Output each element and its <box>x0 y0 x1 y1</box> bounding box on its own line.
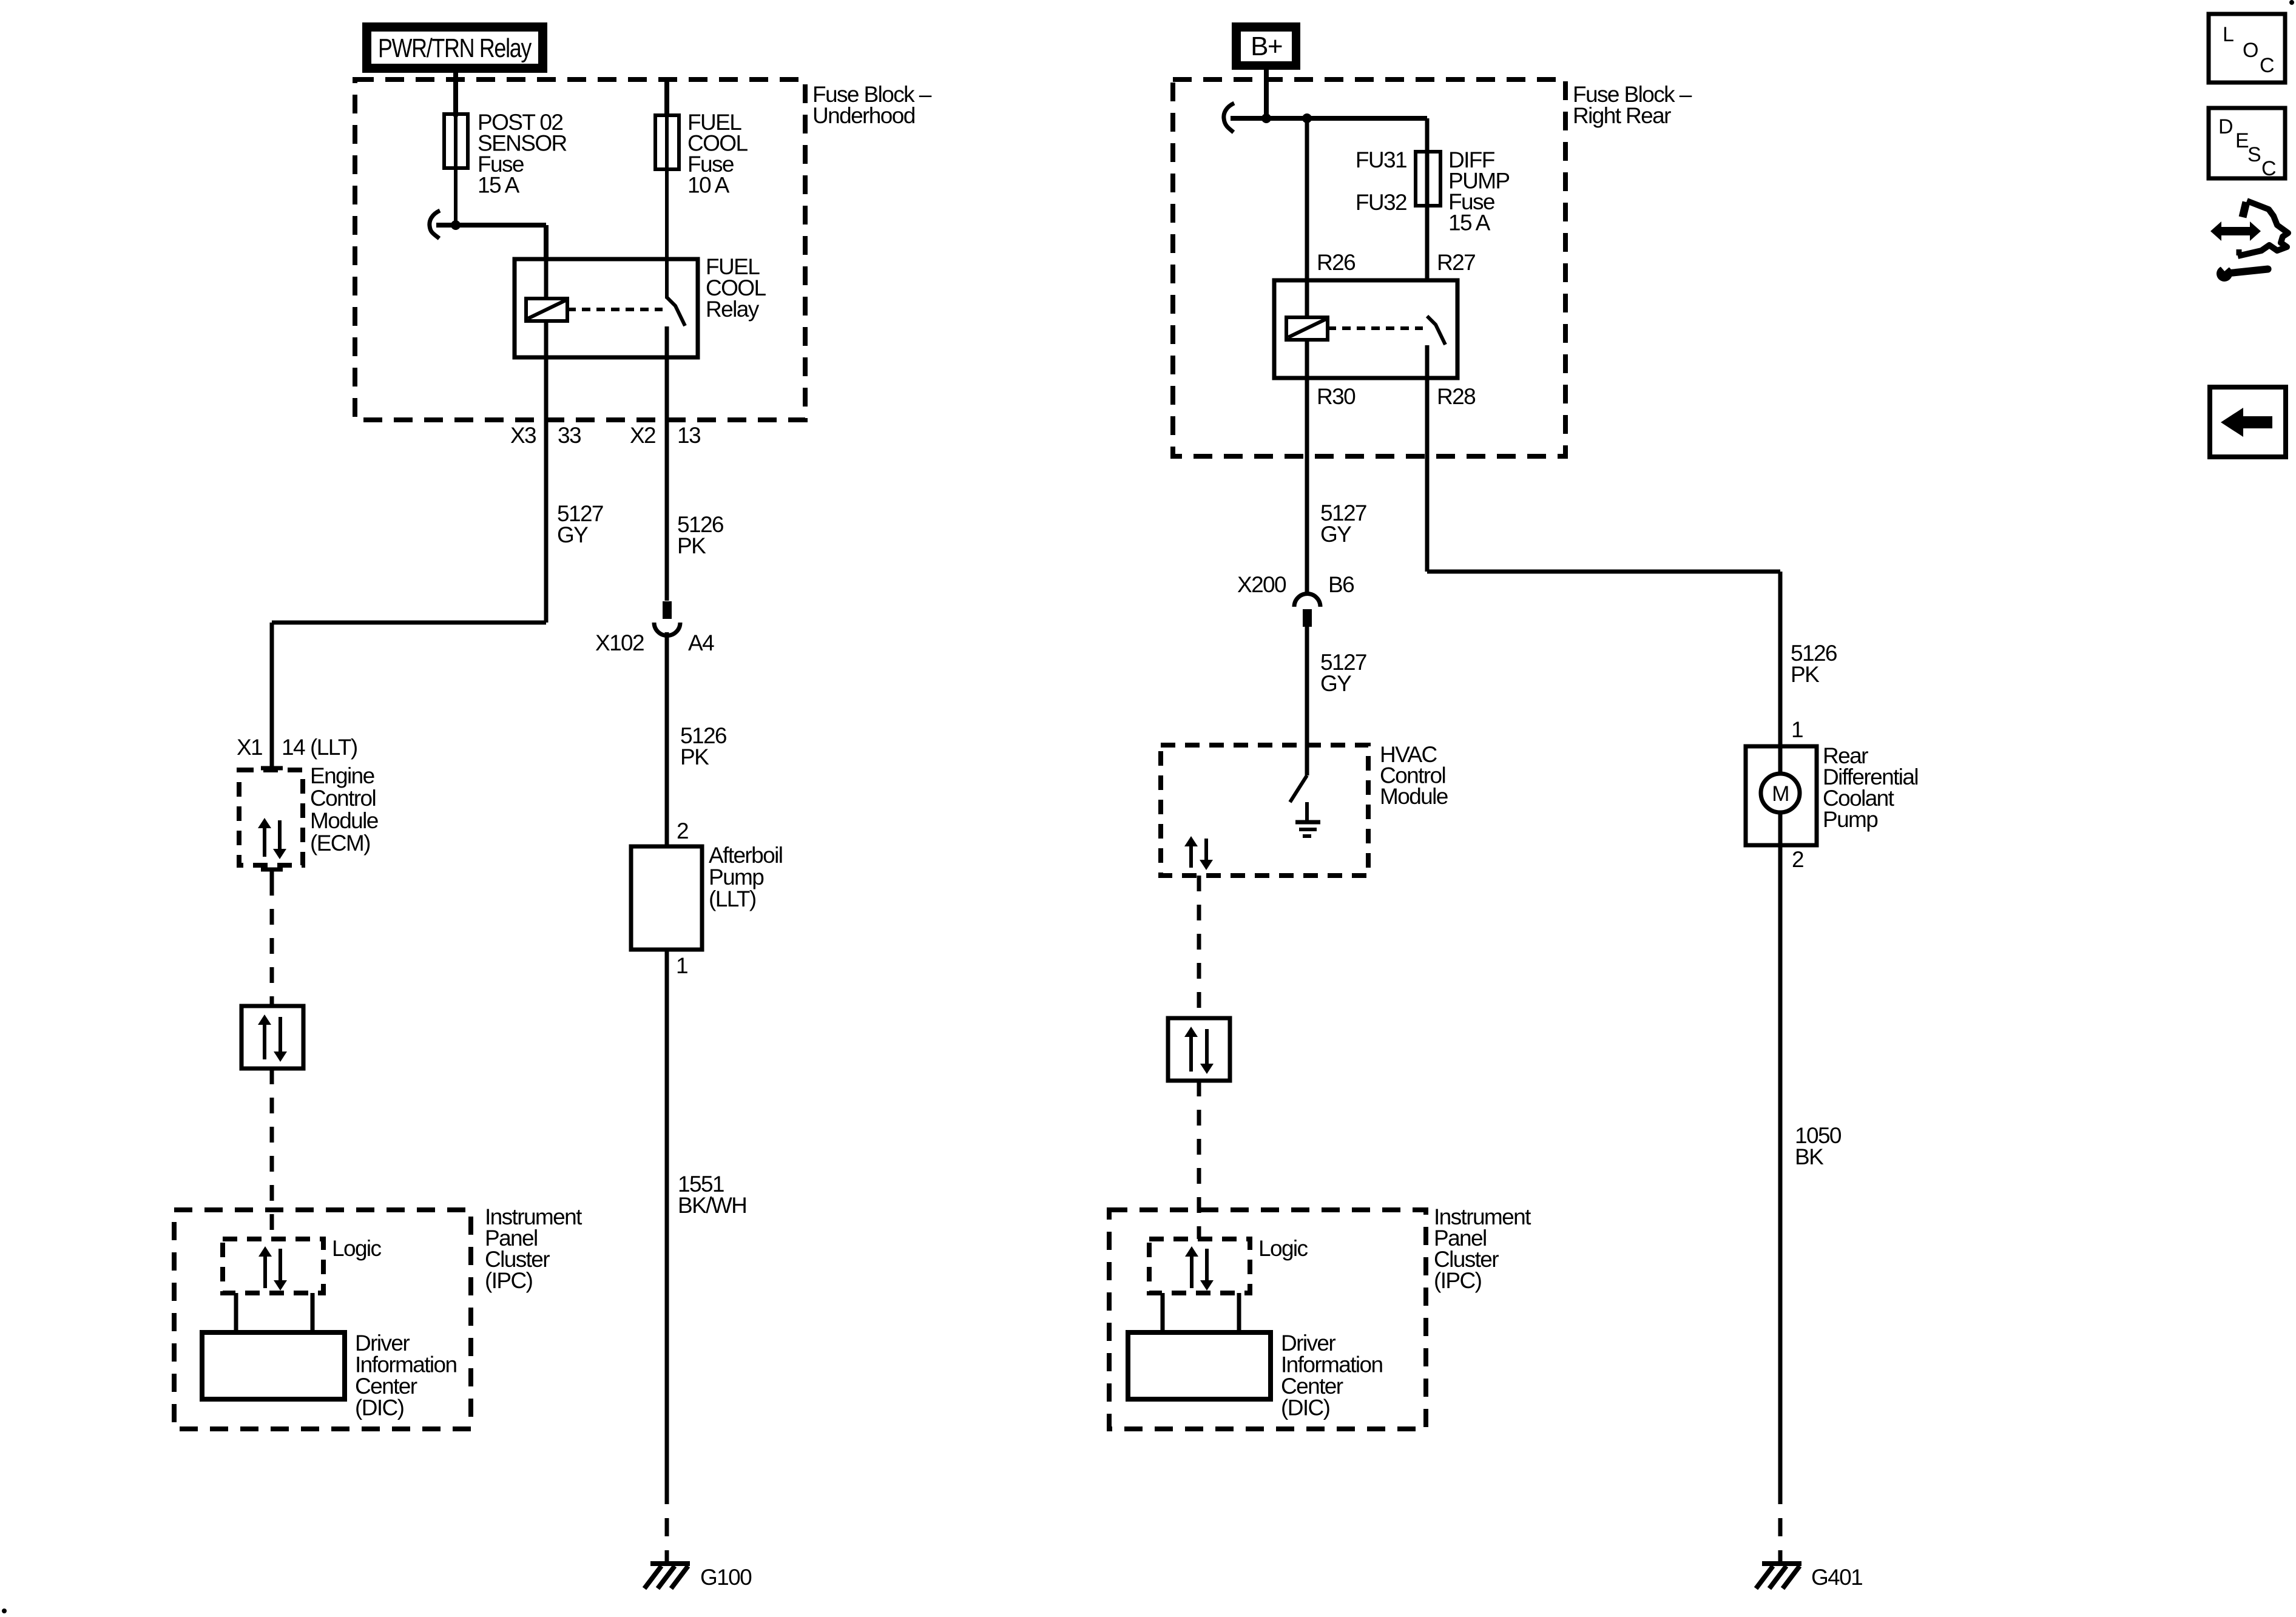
svg-text:FU31: FU31 <box>1356 147 1406 172</box>
svg-text:BK/WH: BK/WH <box>678 1193 746 1218</box>
svg-text:(LLT): (LLT) <box>709 886 756 911</box>
svg-text:Right Rear: Right Rear <box>1573 103 1671 128</box>
svg-text:GY: GY <box>1320 671 1351 696</box>
svg-text:Underhood: Underhood <box>812 103 915 128</box>
svg-text:G100: G100 <box>700 1565 752 1590</box>
svg-text:Logic: Logic <box>332 1236 382 1261</box>
svg-text:X1: X1 <box>237 735 262 760</box>
svg-text:X2: X2 <box>630 423 655 448</box>
svg-text:L: L <box>2223 23 2234 46</box>
svg-text:GY: GY <box>1320 522 1351 547</box>
svg-text:Module: Module <box>310 808 378 833</box>
svg-text:C: C <box>2260 54 2274 77</box>
svg-text:X3: X3 <box>510 423 536 448</box>
svg-text:14: 14 <box>282 735 305 760</box>
svg-text:Engine: Engine <box>310 763 374 788</box>
svg-text:1: 1 <box>676 953 687 978</box>
svg-text:(LLT): (LLT) <box>310 735 357 760</box>
svg-text:(IPC): (IPC) <box>1434 1268 1482 1293</box>
svg-text:PWR/TRN Relay: PWR/TRN Relay <box>378 33 532 63</box>
svg-text:Relay: Relay <box>706 297 760 322</box>
svg-text:O: O <box>2243 39 2258 62</box>
svg-text:C: C <box>2261 157 2276 180</box>
svg-text:R30: R30 <box>1317 384 1356 409</box>
svg-text:15 A: 15 A <box>478 173 520 198</box>
svg-text:R26: R26 <box>1317 250 1355 275</box>
svg-text:BK: BK <box>1795 1144 1824 1169</box>
svg-text:1: 1 <box>1791 717 1803 742</box>
svg-text:X102: X102 <box>595 630 644 655</box>
svg-text:G401: G401 <box>1811 1565 1862 1590</box>
svg-text:Module: Module <box>1380 784 1448 809</box>
svg-text:(DIC): (DIC) <box>355 1396 404 1420</box>
svg-text:S: S <box>2247 143 2261 166</box>
svg-text:M: M <box>1772 782 1789 806</box>
svg-text:Pump: Pump <box>1823 807 1878 832</box>
svg-text:GY: GY <box>557 522 588 547</box>
svg-text:PK: PK <box>1791 662 1820 687</box>
svg-text:13: 13 <box>677 423 700 448</box>
svg-text:X200: X200 <box>1237 572 1286 597</box>
svg-text:Control: Control <box>310 786 376 811</box>
svg-text:B+: B+ <box>1251 32 1282 61</box>
svg-text:Logic: Logic <box>1258 1236 1308 1261</box>
svg-text:D: D <box>2218 115 2232 138</box>
svg-text:R28: R28 <box>1437 384 1475 409</box>
svg-text:(DIC): (DIC) <box>1281 1396 1330 1420</box>
svg-text:10 A: 10 A <box>687 173 730 198</box>
svg-text:A4: A4 <box>688 630 714 655</box>
svg-text:(IPC): (IPC) <box>485 1268 533 1293</box>
svg-text:2: 2 <box>677 819 688 843</box>
svg-text:PK: PK <box>677 533 706 558</box>
svg-text:2: 2 <box>1792 847 1803 872</box>
svg-text:FU32: FU32 <box>1356 190 1406 215</box>
svg-text:15 A: 15 A <box>1448 211 1491 235</box>
svg-text:Pump: Pump <box>709 865 764 890</box>
svg-text:Afterboil: Afterboil <box>709 843 782 868</box>
svg-text:E: E <box>2235 129 2249 152</box>
svg-text:(ECM): (ECM) <box>310 831 370 856</box>
svg-text:PK: PK <box>680 744 709 769</box>
svg-text:B6: B6 <box>1328 572 1354 597</box>
svg-text:R27: R27 <box>1437 250 1475 275</box>
svg-text:33: 33 <box>558 423 581 448</box>
